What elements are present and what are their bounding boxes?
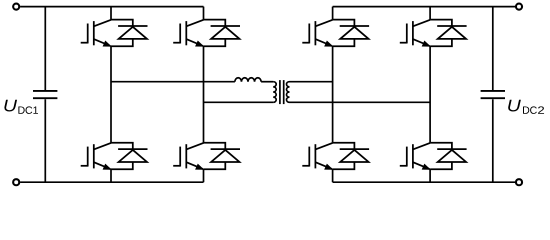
diode D6 [333,143,370,170]
wire capacitor C2 branch top [492,7,494,90]
wire transformer primary bottom to leg B tap [204,101,274,103]
label U_DC2 [508,100,521,112]
terminal bottom-left [13,179,19,185]
wire leg D bottom [429,169,431,182]
wire leg C top drop [332,7,334,20]
wire leg D mid [429,46,431,143]
transistor Q6 [302,143,332,169]
wire leg A bottom [110,169,112,182]
diode D8 [430,143,467,170]
terminal top-left [13,4,19,10]
transformer T1 secondary winding [287,82,290,103]
diode D7 [430,20,467,47]
wire transformer secondary bottom to leg D tap [290,101,431,103]
diode D4 [204,143,241,170]
transformer T1 core [279,80,281,104]
inductor L1 [235,78,261,82]
capacitor C2 [481,90,505,92]
transformer T1 primary winding [273,82,276,103]
transistor Q7 [400,20,430,46]
wire inductor to transformer primary [261,81,273,83]
wire capacitor C1 branch bottom [44,99,46,182]
transistor Q4 [173,143,203,169]
wire capacitor C1 branch top [44,7,46,90]
transistor Q1 [81,20,111,46]
wire leg A mid [110,46,112,143]
diode D3 [204,20,241,47]
wire bottom rail right [333,181,515,183]
wire leg B top drop [203,7,205,20]
wire leg C bottom [332,169,334,182]
transistor Q3 [173,20,203,46]
wire transformer secondary top to leg C tap [290,81,333,83]
wire leg D top drop [429,7,431,20]
label U_DC1 [4,100,17,112]
wire leg C mid [332,46,334,143]
diode D2 [111,143,148,170]
wire top rail right [333,6,515,8]
terminal top-right [516,4,522,10]
wire leg B bottom [203,169,205,182]
wire leg A tap to inductor [111,81,235,83]
transistor Q5 [302,20,332,46]
transistor Q2 [81,143,111,169]
transistor Q8 [400,143,430,169]
wire capacitor C2 branch bottom [492,99,494,182]
diode D5 [333,20,370,47]
capacitor C1 [33,90,57,92]
diode D1 [111,20,148,47]
wire top rail left [20,6,203,8]
wire leg B mid [203,46,205,143]
terminal bottom-right [516,179,522,185]
wire leg A top drop [110,7,112,20]
wire bottom rail left [20,181,203,183]
